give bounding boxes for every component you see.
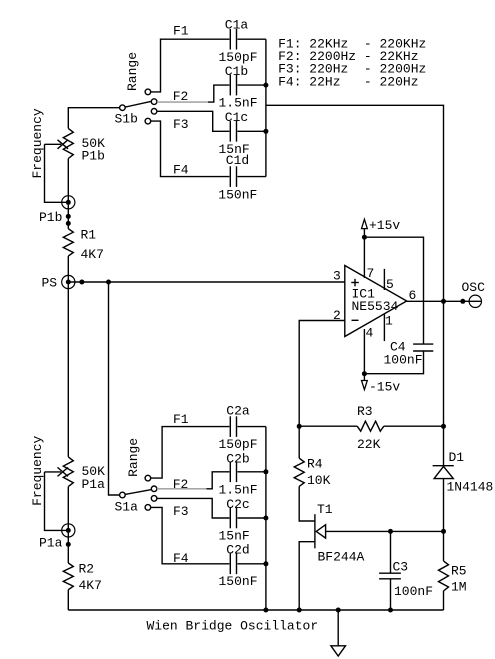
op-amp plus sign: [351, 279, 359, 287]
resistor R3: [357, 421, 384, 431]
wire bottom ground rail: [68, 609, 443, 611]
svg-text:1N4148: 1N4148: [447, 479, 494, 494]
svg-text:1: 1: [385, 313, 393, 328]
svg-text:F2: F2: [173, 89, 189, 104]
P1b wiper arrow: [45, 140, 69, 149]
switch S1b: [120, 89, 157, 124]
P1a wiper arrow: [45, 467, 69, 476]
transistor T1 BF244A: [315, 514, 326, 548]
svg-text:Range: Range: [126, 438, 141, 477]
svg-text:1.5nF: 1.5nF: [219, 96, 258, 111]
capacitor C3: [379, 573, 401, 579]
svg-text:100nF: 100nF: [394, 584, 433, 599]
wire F4 contact to F4 row: [151, 121, 230, 177]
wire bus tap to right rail: [266, 105, 444, 301]
junction dot R3 left: [297, 424, 302, 429]
svg-text:BF244A: BF244A: [318, 550, 365, 565]
svg-text:F1: F1: [173, 412, 189, 427]
junction dot R3 right: [441, 424, 446, 429]
svg-text:S1b: S1b: [115, 112, 138, 127]
frequency table text: [278, 36, 426, 89]
wire C1 bank bus: [265, 39, 267, 176]
junction dot: [263, 83, 268, 88]
wire T1 gate row: [326, 530, 444, 532]
svg-text:7: 7: [367, 266, 375, 281]
-15v supply arrow: [362, 374, 368, 390]
svg-text:C1b: C1b: [225, 64, 248, 79]
wire +15 rail to C4: [364, 237, 423, 344]
svg-text:5: 5: [386, 277, 394, 292]
wire F1 contact to F1 row: [151, 39, 230, 92]
junction dot -15: [362, 371, 367, 376]
capacitor C1a: [230, 29, 236, 50]
capacitor C1c: [230, 121, 236, 142]
svg-text:D1: D1: [449, 450, 465, 465]
pin 7 wire: [363, 237, 365, 278]
wire R2 to bottom rail: [67, 590, 69, 610]
junction dot: [66, 221, 71, 226]
wire P1b wiper bracket: [45, 144, 69, 202]
svg-text:F3: F3: [173, 117, 189, 132]
node PS: [62, 275, 75, 288]
wire C2a to bus: [237, 426, 266, 428]
svg-text:1.5nF: 1.5nF: [219, 482, 258, 497]
wire C2 bank bus to rail: [265, 427, 267, 610]
svg-text:C1d: C1d: [226, 153, 249, 168]
potentiometer P1b: [63, 128, 73, 158]
svg-text:-15v: -15v: [369, 379, 400, 394]
svg-text:+15v: +15v: [369, 218, 400, 233]
junction dot rail/ground: [336, 608, 341, 613]
wire F2 contact (gray): [157, 101, 208, 103]
svg-text:22K: 22K: [357, 437, 381, 452]
svg-text:T1: T1: [317, 502, 333, 517]
junction dot: [263, 129, 268, 134]
ground: [331, 610, 346, 656]
junction dot: [79, 280, 84, 285]
op-amp U1 triangle: [345, 266, 407, 337]
junction dot: [263, 516, 268, 521]
wire PS row to op-amp pin 3: [68, 281, 345, 283]
svg-text:F2: F2: [173, 477, 189, 492]
resistor R5: [439, 561, 449, 591]
svg-text:C3: C3: [393, 559, 409, 574]
wire F4 contact to C2 F4 row: [151, 507, 230, 563]
svg-text:150pF: 150pF: [219, 437, 258, 452]
svg-text:3: 3: [333, 268, 341, 283]
capacitor C2a: [230, 416, 236, 437]
svg-text:F3: F3: [173, 504, 189, 519]
wire C1a to bus: [237, 38, 266, 40]
wire PS branch down to S1a pole: [109, 282, 120, 495]
wire F2 contact (gray, bottom): [157, 488, 207, 490]
svg-text:15nF: 15nF: [219, 529, 250, 544]
svg-text:R4: R4: [307, 457, 323, 472]
wire C2d to bus: [237, 563, 266, 565]
svg-text:Frequency: Frequency: [30, 435, 45, 505]
wire T1 source to rail: [299, 542, 315, 610]
svg-text:10K: 10K: [307, 473, 331, 488]
wire F3 contact to C2c: [157, 498, 230, 518]
wire right rail OSC to R3 row: [443, 301, 445, 465]
svg-text:F4: 22Hz - 220Hz: F4: 22Hz - 220Hz: [278, 74, 418, 89]
resistor R4: [294, 458, 304, 486]
svg-text:1M: 1M: [451, 580, 467, 595]
junction dot rail/C2 bus: [263, 608, 268, 613]
diode D1: [433, 466, 454, 479]
wire D1 to gate row: [443, 479, 445, 532]
wire pot P1b top to switch S1b pole: [68, 108, 119, 129]
svg-text:6: 6: [409, 288, 417, 303]
wire op-amp output pin 6: [407, 300, 482, 302]
wire R3 right lead: [384, 425, 444, 427]
svg-text:P1a: P1a: [39, 535, 63, 550]
wire C1c to bus: [237, 130, 266, 132]
svg-text:Wien Bridge Oscillator: Wien Bridge Oscillator: [147, 619, 319, 634]
svg-text:PS: PS: [42, 276, 58, 291]
svg-text:R5: R5: [451, 563, 467, 578]
wire F2 elbow to C2b: [207, 472, 230, 489]
svg-text:Range: Range: [125, 52, 140, 91]
wire C2c to bus: [237, 517, 266, 519]
junction dot: [263, 469, 268, 474]
wire F1 contact to C2 F1 row: [151, 427, 230, 479]
junction dot gate/C3: [388, 529, 393, 534]
capacitor C2c: [230, 508, 236, 529]
wire C2b to bus: [237, 471, 266, 473]
svg-text:P1b: P1b: [82, 149, 105, 164]
svg-text:100nF: 100nF: [384, 352, 423, 367]
wire pot P1b bottom to connector: [67, 159, 69, 229]
wire gate row to R5: [443, 531, 445, 561]
capacitor C1d: [230, 166, 236, 187]
svg-text:C1a: C1a: [225, 18, 249, 33]
wire F3 contact to C1c: [157, 111, 230, 131]
svg-text:4K7: 4K7: [79, 578, 102, 593]
svg-text:C1c: C1c: [225, 110, 248, 125]
svg-text:Frequency: Frequency: [30, 108, 45, 178]
wire R4 to T1 drain: [299, 486, 315, 521]
svg-text:C2c: C2c: [226, 497, 249, 512]
junction dot output/rail: [441, 299, 446, 304]
junction dot: [66, 214, 71, 219]
pin 1 stub: [383, 314, 385, 341]
junction dot OSC: [460, 299, 465, 304]
svg-text:P1b: P1b: [39, 210, 62, 225]
svg-text:4K7: 4K7: [81, 247, 104, 262]
svg-text:NE5534: NE5534: [352, 299, 399, 314]
junction dot: [106, 280, 111, 285]
junction dot: [66, 542, 71, 547]
wire C3 bottom lead: [390, 579, 392, 610]
pin 4 wire: [363, 329, 365, 374]
connector P1b: [62, 196, 75, 209]
resistor R1: [63, 229, 73, 256]
svg-text:4: 4: [366, 326, 374, 341]
svg-text:F4: F4: [173, 551, 189, 566]
junction dot +15: [362, 235, 367, 240]
svg-text:P1a: P1a: [82, 477, 106, 492]
capacitor C4: [413, 344, 433, 351]
svg-text:C2b: C2b: [226, 452, 249, 467]
pin 5 stub: [383, 269, 385, 290]
svg-text:150nF: 150nF: [218, 188, 257, 203]
wire P1a wiper bracket: [45, 472, 69, 531]
switch S1a: [120, 475, 157, 510]
svg-text:150nF: 150nF: [219, 574, 258, 589]
junction dot gate row right: [441, 529, 446, 534]
wire C3 top lead: [390, 531, 392, 573]
resistor R2: [63, 563, 73, 590]
svg-text:R1: R1: [81, 227, 97, 242]
junction dot rail/C3: [388, 608, 393, 613]
wire PS down to pot P1a: [67, 282, 69, 457]
svg-text:R3: R3: [357, 404, 373, 419]
svg-text:C2a: C2a: [226, 403, 250, 418]
wire R4 top lead: [298, 426, 300, 458]
svg-text:OSC: OSC: [462, 280, 486, 295]
wire R3 left lead: [299, 425, 357, 427]
svg-text:R2: R2: [79, 561, 95, 576]
svg-text:2: 2: [333, 308, 341, 323]
potentiometer P1a: [63, 457, 73, 487]
wire op-amp pin 2: [299, 321, 345, 427]
svg-text:F4: F4: [173, 162, 189, 177]
+15v supply arrow: [362, 219, 368, 237]
wire C1d to bus: [237, 176, 266, 178]
wire C4 to -15 rail: [364, 351, 423, 374]
svg-text:C2d: C2d: [226, 542, 249, 557]
capacitor C2b: [230, 462, 236, 483]
wire C1b to bus: [237, 84, 266, 86]
wire pot P1a bottom to connector: [67, 487, 69, 563]
wire R5 to bottom rail: [443, 591, 445, 610]
connector P1a: [62, 524, 75, 537]
wire R1 to PS: [67, 256, 69, 282]
junction dot rail/T1 source: [297, 608, 302, 613]
capacitor C2d: [230, 554, 236, 575]
svg-text:150pF: 150pF: [219, 50, 258, 65]
terminal OSC: [469, 295, 481, 307]
wire F2 elbow to C1b: [208, 85, 229, 102]
svg-text:S1a: S1a: [115, 499, 139, 514]
capacitor C1b: [230, 75, 236, 96]
svg-text:F1: F1: [173, 24, 189, 39]
op-amp minus sign: [352, 319, 359, 321]
junction dot: [263, 561, 268, 566]
